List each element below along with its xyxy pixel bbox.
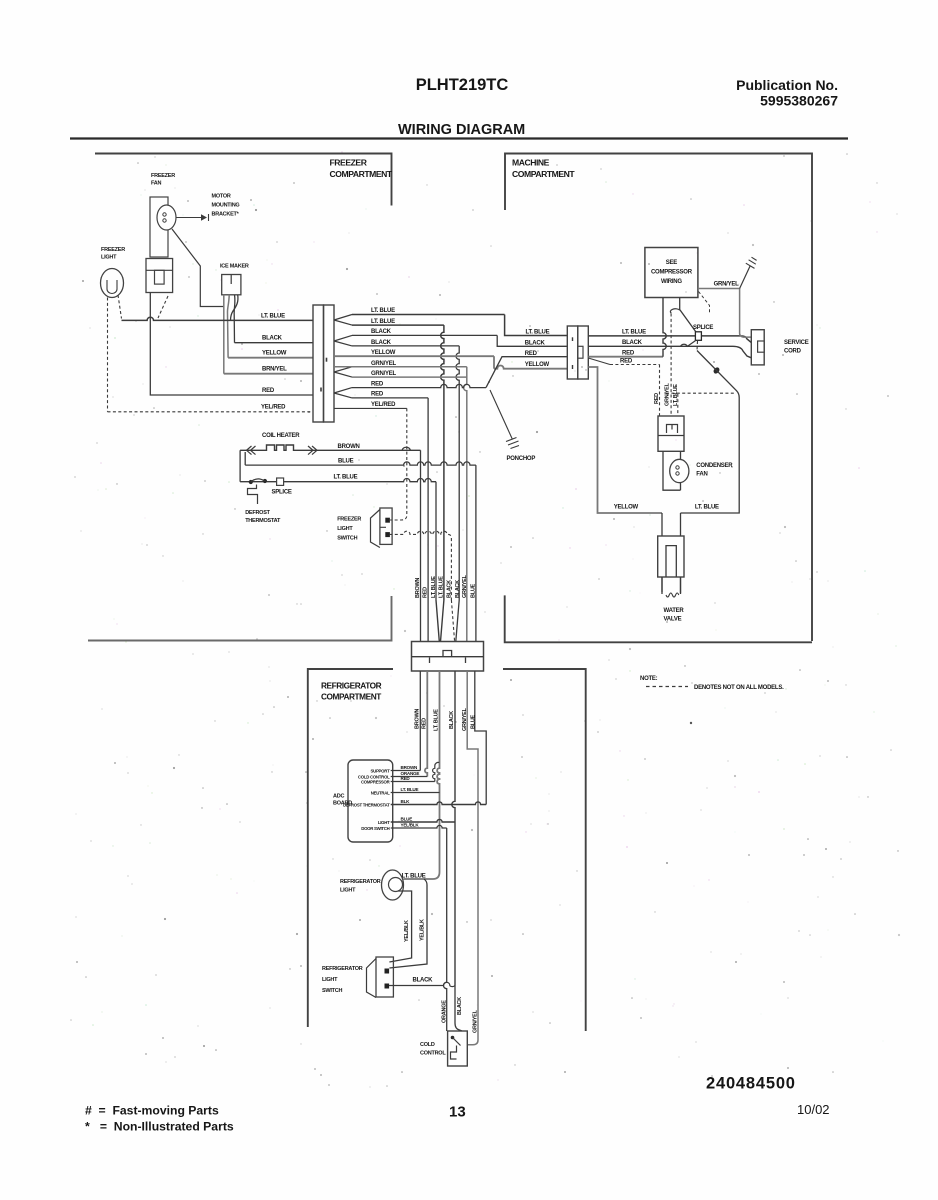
compressor box U1 — [645, 248, 698, 298]
svg-text:SEE: SEE — [666, 260, 678, 266]
label BLACK switch — [413, 978, 434, 984]
stray dot mark — [690, 722, 692, 724]
svg-text:FAN: FAN — [151, 181, 162, 187]
compressor pin wire to RED — [663, 298, 666, 357]
wire BLUE into connector — [475, 600, 477, 642]
label RED 1 — [371, 381, 384, 387]
coil heater left leg — [239, 450, 241, 481]
svg-text:BROWN: BROWN — [338, 444, 360, 450]
svg-text:5995380267: 5995380267 — [760, 93, 838, 109]
svg-text:LT. BLUE: LT. BLUE — [261, 313, 285, 319]
wire BLACK row 1 — [352, 335, 567, 346]
wire freezer light dashed down — [107, 298, 109, 412]
svg-text:LIGHT: LIGHT — [101, 255, 117, 261]
condenser fan motor M2 — [663, 451, 689, 490]
vertical wire YEL/RED dashed to switch — [390, 408, 407, 520]
wire RED into connector — [427, 600, 429, 642]
label BLACK rotated — [457, 997, 463, 1015]
svg-text:BLACK: BLACK — [525, 341, 546, 347]
connector J1 bulkhead — [313, 305, 334, 422]
vertical bundle label BROWN — [415, 578, 421, 598]
label YEL/RED right — [371, 402, 396, 408]
svg-text:LT. BLUE: LT. BLUE — [402, 874, 426, 880]
wire LT. BLUE freezer row — [122, 317, 314, 320]
svg-text:CONTROL: CONTROL — [420, 1051, 446, 1057]
label BROWN coil — [338, 444, 360, 450]
refrigerator light switch SW2 — [367, 957, 394, 998]
svg-text:REFRIGERATOR: REFRIGERATOR — [321, 681, 382, 691]
condenser dashed labels — [654, 382, 679, 406]
svg-text:BLUE: BLUE — [401, 816, 413, 821]
wire BRN/YEL freezer row — [224, 373, 313, 375]
svg-text:* = Non-Illustrated Parts: * = Non-Illustrated Parts — [85, 1120, 234, 1134]
svg-text:ICE MAKER: ICE MAKER — [220, 264, 249, 270]
svg-text:GRN/YEL: GRN/YEL — [371, 371, 397, 377]
heading WIRING DIAGRAM — [398, 122, 525, 138]
wire switch lower contact dashed — [389, 531, 451, 600]
refrigerator compartment border — [308, 669, 586, 1031]
svg-text:FREEZER: FREEZER — [330, 158, 368, 168]
lower bundle label BLACK — [449, 711, 455, 729]
svg-text:BRN/YEL: BRN/YEL — [262, 367, 287, 373]
date 10/02 — [797, 1102, 830, 1117]
svg-text:YEL/BLK: YEL/BLK — [401, 823, 420, 828]
wire LT. BLUE row 1 — [352, 315, 567, 336]
svg-text:GRN/YEL: GRN/YEL — [473, 1009, 479, 1033]
svg-text:LT. BLUE: LT. BLUE — [695, 505, 719, 511]
wire light bottom YEL/BLK — [389, 891, 411, 962]
svg-text:LT. BLUE: LT. BLUE — [371, 319, 395, 325]
footer non-illustrated parts — [85, 1120, 234, 1134]
ADC row5 wire BLK — [391, 802, 487, 805]
wire BLACK from switch — [389, 982, 455, 986]
vertical bundle label RED — [422, 587, 428, 598]
svg-text:BLUE: BLUE — [471, 583, 477, 598]
ADC row3 wire RED — [391, 762, 440, 781]
fanout RED pair — [334, 388, 352, 398]
wire freezer light dashed to lt.blue row — [118, 295, 122, 319]
svg-text:RED: RED — [262, 388, 275, 394]
label LT. BLUE coil — [334, 475, 358, 481]
wire RED lower — [425, 671, 427, 777]
svg-text:BLACK: BLACK — [457, 997, 463, 1015]
svg-text:RED: RED — [422, 587, 428, 598]
svg-text:DENOTES NOT ON ALL MODELS.: DENOTES NOT ON ALL MODELS. — [694, 685, 784, 691]
title PLHT219TC — [416, 76, 509, 94]
svg-text:LT. BLUE: LT. BLUE — [434, 709, 440, 731]
svg-text:YELLOW: YELLOW — [262, 351, 287, 357]
svg-text:DEFROST: DEFROST — [245, 510, 270, 516]
label GRN/YEL top — [714, 282, 740, 288]
svg-text:GRN/YEL: GRN/YEL — [714, 282, 740, 288]
ponchop pointer line — [490, 390, 513, 440]
ponchop hatch — [506, 438, 519, 449]
wire RED dashed drop — [588, 358, 659, 416]
fanout GRN/YEL pair — [334, 367, 352, 377]
label YELLOW bottom — [614, 505, 639, 511]
svg-text:COMPARTMENT: COMPARTMENT — [321, 692, 381, 702]
ADC row7 label — [401, 823, 420, 828]
label RED machine left — [525, 351, 538, 357]
splice lower diagonal — [681, 340, 697, 346]
ADC pin LIGHT — [378, 820, 390, 825]
label LT. BLUE machine left — [526, 329, 550, 335]
part number 240484500 — [706, 1075, 796, 1093]
svg-text:NEUTRAL: NEUTRAL — [371, 790, 390, 795]
wire freezer fan to ice maker pins — [172, 229, 224, 307]
svg-text:13: 13 — [449, 1104, 466, 1121]
svg-text:YEL/BLK: YEL/BLK — [419, 919, 425, 941]
vertical wire BROWN — [420, 450, 422, 600]
svg-text:LIGHT: LIGHT — [378, 820, 390, 825]
svg-text:LT. BLUE: LT. BLUE — [526, 329, 550, 335]
svg-text:BLK: BLK — [401, 799, 411, 804]
header rule — [70, 137, 848, 139]
label RED machine right — [622, 350, 635, 356]
wire RED row 2 to vertical — [352, 397, 428, 399]
machine inner dashed top — [666, 392, 736, 394]
svg-text:LT. BLUE: LT. BLUE — [431, 576, 437, 598]
freezer fan housing — [150, 197, 168, 257]
svg-text:RED: RED — [654, 393, 660, 404]
water valve V1 — [658, 536, 684, 577]
ADC pin COMPRESSOR — [361, 780, 391, 785]
wire freezer fan dashed tap — [158, 296, 168, 318]
machine connector J3 — [567, 326, 588, 379]
svg-text:LIGHT: LIGHT — [322, 977, 338, 983]
vertical wire GRN/YEL — [464, 367, 467, 600]
svg-text:BLACK: BLACK — [449, 711, 455, 729]
splice drop dashed — [696, 341, 699, 351]
footer fast-moving parts — [85, 1104, 219, 1118]
refrigerator light L2 — [382, 870, 404, 900]
ADC row6 label — [401, 816, 413, 821]
svg-text:LT. BLUE: LT. BLUE — [439, 576, 445, 598]
splice label — [272, 490, 292, 496]
ADC row7 wire YEL/BLK — [391, 825, 447, 828]
coil heater label — [262, 433, 300, 439]
vertical bundle label GRN/YEL — [462, 574, 468, 598]
svg-text:GRN/YEL: GRN/YEL — [371, 361, 397, 367]
compressor corner dashed — [699, 292, 710, 314]
svg-text:BLACK: BLACK — [371, 329, 392, 335]
wire LT. BLUE coil row — [240, 479, 436, 482]
wire LT. BLUE row 2 to vertical — [352, 324, 444, 326]
label YELLOW machine left — [525, 362, 550, 368]
freezer light switch label — [337, 517, 361, 542]
defrost thermostat switch — [248, 479, 265, 504]
wire YELLOW machine drop — [588, 367, 662, 513]
label LT. BLUE bottom — [695, 505, 719, 511]
vertical wire RED — [427, 398, 429, 600]
svg-text:SUPPORT: SUPPORT — [370, 768, 390, 773]
svg-text:WIRING DIAGRAM: WIRING DIAGRAM — [398, 122, 525, 138]
connector J2 bulkhead — [412, 642, 484, 672]
svg-text:FREEZER: FREEZER — [151, 173, 175, 179]
ADC board label — [333, 794, 352, 807]
freezer compartment border top — [95, 154, 392, 206]
condenser fan connector P4 — [658, 416, 684, 451]
svg-text:YELLOW: YELLOW — [371, 350, 396, 356]
svg-text:SWITCH: SWITCH — [322, 988, 342, 994]
ice maker pin wire to BLACK — [233, 295, 236, 343]
vertical wire BLUE — [475, 465, 477, 600]
freezer light switch SW1 — [371, 508, 393, 548]
svg-text:ORANGE: ORANGE — [441, 1000, 447, 1023]
wire ORANGE to cold control — [444, 828, 447, 1031]
svg-text:SPLICE: SPLICE — [272, 490, 292, 496]
label BLACK 2 — [371, 340, 392, 346]
svg-text:BRACKET*: BRACKET* — [212, 212, 240, 218]
freezer fan connector P1 — [146, 259, 173, 293]
wire LT. BLUE converge — [436, 600, 444, 642]
motor mounting bracket arrow — [177, 214, 209, 221]
ADC row2 wire ORANGE — [391, 776, 428, 778]
label RED dashed — [620, 358, 633, 364]
water valve label — [664, 608, 685, 623]
svg-text:YEL/RED: YEL/RED — [261, 405, 286, 411]
wire light YEL/BLK 2 — [389, 879, 427, 968]
ADC row4 wire LT. BLUE — [391, 792, 440, 794]
svg-text:RED: RED — [401, 776, 411, 781]
wire GRN/YEL row 1 — [334, 366, 467, 368]
svg-text:# = Fast-moving Parts: # = Fast-moving Parts — [85, 1104, 219, 1118]
defrost thermostat contacts — [249, 479, 267, 484]
vertical bundle label BLUE — [471, 583, 477, 598]
svg-text:YEL/RED: YEL/RED — [371, 402, 396, 408]
note dashed sample — [646, 686, 688, 688]
note text — [694, 685, 784, 691]
freezer light L1 — [101, 269, 124, 298]
svg-text:REFRIGERATOR: REFRIGERATOR — [340, 879, 381, 885]
machine inner box corner — [681, 351, 740, 514]
label YEL/BLK 2 — [419, 919, 425, 941]
svg-text:YELLOW: YELLOW — [614, 505, 639, 511]
wire BLACK row 2 to vertical — [352, 345, 459, 347]
wire BLACK lower — [452, 671, 462, 1031]
wire GRN/YEL row 2 — [352, 376, 467, 378]
svg-text:RED: RED — [622, 350, 635, 356]
wire YEL/RED right row — [334, 407, 407, 409]
wire LT. BLUE dashed to condenser — [677, 394, 679, 416]
wire GRN/YEL dashed to condenser — [670, 314, 672, 417]
svg-text:BLACK: BLACK — [262, 336, 283, 342]
svg-text:DOOR SWITCH: DOOR SWITCH — [361, 826, 389, 831]
freezer light label — [101, 247, 125, 261]
note label — [640, 676, 658, 682]
svg-text:BLACK: BLACK — [371, 340, 392, 346]
wire YELLOW row — [334, 356, 567, 369]
svg-text:BLACK: BLACK — [622, 340, 643, 346]
svg-text:FAN: FAN — [696, 472, 707, 478]
svg-text:LT. BLUE: LT. BLUE — [673, 384, 679, 406]
splice S1 — [277, 478, 284, 485]
vertical wire LT. BLUE a — [435, 482, 437, 600]
coil heater R1 — [240, 445, 420, 455]
defrost thermostat label — [245, 510, 281, 524]
fanout BLACK pair — [334, 335, 352, 346]
ADC row2 label — [401, 771, 420, 776]
svg-text:BLUE: BLUE — [470, 714, 476, 729]
ADC pin DEFROST THERMOSTAT — [343, 802, 390, 807]
wire GRN/YEL top — [698, 289, 751, 338]
lower bundle label BROWN — [415, 709, 421, 729]
label LT. BLUE — [261, 313, 285, 319]
wire BLACK converge — [451, 600, 459, 642]
machine compartment label — [512, 158, 575, 180]
machine compartment border top/right — [505, 154, 812, 642]
svg-text:COMPRESSOR: COMPRESSOR — [651, 270, 693, 276]
wire BLUE coil row — [245, 452, 476, 465]
compressor pin wire to splice — [670, 298, 695, 332]
label LT. BLUE 2 — [371, 319, 395, 325]
ADC row1 wire BROWN — [391, 770, 421, 772]
cold control label — [420, 1042, 446, 1057]
svg-text:FREEZER: FREEZER — [337, 517, 361, 523]
svg-text:WATER: WATER — [664, 608, 685, 614]
label LT. BLUE machine right — [622, 329, 646, 335]
hash mark part symbol — [712, 366, 720, 375]
cold control SW3 — [448, 1031, 468, 1066]
ground hatch — [746, 257, 757, 268]
wire RED machine right — [588, 356, 663, 358]
wire LT. BLUE machine right — [588, 336, 751, 343]
svg-text:COIL HEATER: COIL HEATER — [262, 433, 300, 439]
svg-text:BROWN: BROWN — [401, 765, 419, 770]
motor mounting bracket label — [212, 194, 240, 218]
svg-text:RED: RED — [620, 358, 633, 364]
svg-text:LT. BLUE: LT. BLUE — [401, 787, 419, 792]
label YEL/BLK 1 — [404, 920, 410, 942]
freezer compartment border bottom — [88, 596, 392, 641]
ADC pin COLD CONTROL — [358, 775, 390, 780]
ice maker pin wire to LT.BLUE — [231, 295, 238, 321]
service cord label — [784, 340, 809, 355]
service cord connector P3 — [751, 330, 764, 365]
freezer fan motor M1 — [157, 205, 176, 230]
label BLACK machine right — [622, 340, 643, 346]
svg-text:COLD: COLD — [420, 1042, 435, 1048]
svg-text:BLACK: BLACK — [446, 580, 452, 598]
wire BLACK freezer row — [235, 342, 314, 344]
ice maker label — [220, 264, 249, 270]
ADC row3 label — [401, 776, 411, 781]
vertical bundle label LT. BLUE 1 — [431, 576, 437, 598]
svg-text:SPLICE: SPLICE — [693, 325, 713, 331]
svg-text:LT. BLUE: LT. BLUE — [371, 308, 395, 314]
vertical bundle label LT. BLUE 2 — [439, 576, 445, 598]
ice maker pin wire to BRN/YEL — [223, 295, 225, 374]
lower bundle label BLUE — [470, 714, 476, 729]
splice machine label — [693, 325, 713, 331]
label RED 2 — [371, 392, 384, 398]
splice S2 — [695, 332, 701, 341]
svg-text:CONDENSER: CONDENSER — [696, 463, 733, 469]
wire BROWN hump — [402, 447, 411, 450]
svg-text:BLUE: BLUE — [338, 458, 354, 464]
svg-text:THERMOSTAT: THERMOSTAT — [245, 518, 281, 524]
svg-text:Publication No.: Publication No. — [736, 77, 838, 93]
ponchop label — [507, 456, 536, 462]
label ORANGE rotated — [441, 1000, 447, 1023]
svg-text:MACHINE: MACHINE — [512, 158, 550, 168]
label GRN/YEL rotated — [473, 1009, 479, 1033]
refrigerator light label — [340, 879, 381, 894]
label BLUE coil — [338, 458, 354, 464]
svg-text:LIGHT: LIGHT — [340, 888, 356, 894]
ADC pin NEUTRAL — [371, 790, 390, 795]
label BRN/YEL — [262, 367, 287, 373]
label BLACK machine left — [525, 341, 546, 347]
svg-text:FREEZER: FREEZER — [101, 247, 125, 253]
svg-text:ADC: ADC — [333, 794, 344, 800]
svg-text:LT. BLUE: LT. BLUE — [622, 329, 646, 335]
water valve wires top — [662, 513, 681, 536]
svg-text:WIRING: WIRING — [661, 279, 682, 285]
svg-text:GRN/YEL: GRN/YEL — [665, 382, 671, 406]
lower bundle label RED — [422, 718, 428, 729]
svg-text:MOUNTING: MOUNTING — [212, 203, 240, 209]
svg-text:240484500: 240484500 — [706, 1075, 796, 1093]
label BLACK — [262, 336, 283, 342]
wire RED row 1 — [352, 357, 567, 388]
ADC row5 label — [401, 799, 411, 804]
svg-text:DEFROST THERMOSTAT: DEFROST THERMOSTAT — [343, 802, 390, 807]
lower bundle label GRN/YEL — [462, 707, 468, 731]
label LT. BLUE light — [402, 874, 426, 880]
svg-text:RED: RED — [525, 351, 538, 357]
wire GRN/YEL lower — [467, 671, 478, 1045]
ADC row4 label — [401, 787, 419, 792]
wire YEL/RED freezer row dashed — [108, 411, 314, 413]
ADC board U2 — [348, 760, 393, 842]
svg-text:VALVE: VALVE — [664, 617, 682, 623]
ADC row1 label — [401, 765, 419, 770]
water valve leads — [662, 577, 681, 597]
svg-text:BLACK: BLACK — [455, 580, 461, 598]
label YELLOW — [262, 351, 287, 357]
lower bundle label LT. BLUE — [434, 709, 440, 731]
label GRN/YEL 1 — [371, 361, 397, 367]
wire BLUE lower — [475, 671, 486, 805]
svg-text:LT. BLUE: LT. BLUE — [334, 475, 358, 481]
svg-text:GRN/YEL: GRN/YEL — [462, 707, 468, 731]
wire BROWN into connector — [420, 600, 422, 642]
freezer compartment label — [330, 158, 393, 180]
label RED — [262, 388, 275, 394]
label YELLOW right — [371, 350, 396, 356]
label GRN/YEL 2 — [371, 371, 397, 377]
svg-text:MOTOR: MOTOR — [212, 194, 231, 200]
wire LT. BLUE lower — [404, 671, 440, 879]
svg-text:LIGHT: LIGHT — [337, 526, 353, 532]
label YEL/RED — [261, 405, 286, 411]
label BLACK 1 — [371, 329, 392, 335]
wire BLACK machine right — [588, 346, 751, 358]
svg-text:COMPARTMENT: COMPARTMENT — [330, 169, 393, 179]
refrigerator compartment label — [321, 681, 382, 702]
ADC pin SUPPORT — [370, 768, 390, 773]
svg-text:YELLOW: YELLOW — [525, 362, 550, 368]
publication number — [736, 77, 838, 109]
svg-text:SERVICE: SERVICE — [784, 340, 809, 346]
svg-text:COMPARTMENT: COMPARTMENT — [512, 169, 575, 179]
wire YELLOW freezer row — [228, 357, 313, 359]
svg-text:YEL/BLK: YEL/BLK — [404, 920, 410, 942]
wire GRN/YEL into connector — [466, 600, 468, 642]
vertical wire LT. BLUE b — [441, 325, 444, 600]
svg-text:PONCHOP: PONCHOP — [507, 456, 536, 462]
